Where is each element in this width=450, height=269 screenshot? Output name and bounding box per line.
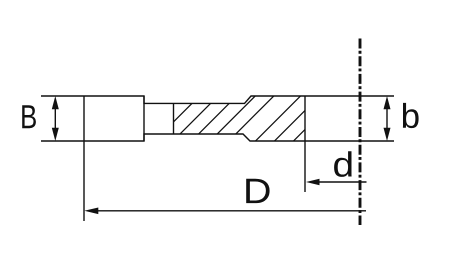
dimension B arrow line — [54, 107, 56, 130]
dimension B arrowhead up — [52, 96, 59, 109]
label B — [22, 105, 36, 128]
label d — [334, 151, 352, 177]
wire bore edge and d extension line x=305 — [304, 96, 306, 192]
wire hatch left boundary x=173.5 — [173, 103, 175, 134]
dimension D arrowhead left — [84, 208, 98, 215]
dimension d arrow line — [316, 181, 367, 183]
wire top outline of cutter body — [41, 96, 394, 103]
centerline (axis, dash-dot) — [359, 39, 362, 226]
dimension b arrowhead down — [384, 128, 391, 141]
dimension D arrow line — [96, 210, 366, 212]
hatching of sectioned body — [153, 95, 339, 142]
wire bottom outline of cutter body — [41, 134, 394, 141]
wire tip boundary x=144 — [143, 96, 145, 141]
dimension b arrow line — [386, 107, 388, 130]
dimension b arrowhead up — [384, 96, 391, 109]
label b — [403, 103, 419, 128]
dimension d arrowhead left — [306, 179, 320, 186]
label D — [246, 179, 269, 203]
dimension B arrowhead down — [52, 128, 59, 141]
wire left edge and D extension line — [83, 96, 85, 221]
